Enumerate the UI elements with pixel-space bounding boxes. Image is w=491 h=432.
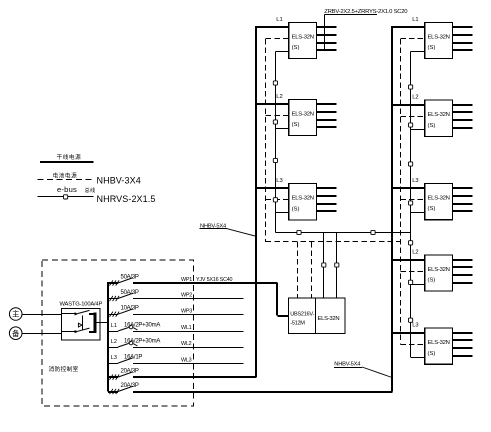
svg-text:L2: L2 <box>412 95 418 101</box>
svg-text:ELS-32N: ELS-32N <box>318 316 340 322</box>
svg-text:NHBV-5X4: NHBV-5X4 <box>334 362 360 368</box>
svg-text:(S): (S) <box>428 278 436 284</box>
svg-text:(S): (S) <box>292 122 300 128</box>
svg-text:20A/3P: 20A/3P <box>121 368 139 374</box>
svg-text:NHRVS-2X1.5: NHRVS-2X1.5 <box>97 194 156 204</box>
svg-text:WL1: WL1 <box>181 325 192 331</box>
svg-text:消防控制室: 消防控制室 <box>49 365 79 373</box>
svg-text:ELS-32N: ELS-32N <box>428 112 450 118</box>
svg-text:WP3: WP3 <box>181 308 192 314</box>
svg-text:NHBV-3X4: NHBV-3X4 <box>97 176 141 186</box>
svg-text:16A/2P+30mA: 16A/2P+30mA <box>124 322 160 328</box>
svg-text:ELS-32N: ELS-32N <box>292 112 314 118</box>
svg-text:(S): (S) <box>428 45 436 51</box>
svg-text:WL2: WL2 <box>181 341 192 347</box>
svg-text:WASTG-100A/4P: WASTG-100A/4P <box>60 302 103 308</box>
svg-text:L1: L1 <box>276 17 282 23</box>
svg-text:备: 备 <box>12 329 20 338</box>
svg-text:WL3: WL3 <box>181 357 192 363</box>
svg-text:16A/1P: 16A/1P <box>124 354 142 360</box>
svg-text:ELS-32N: ELS-32N <box>428 267 450 273</box>
svg-text:ELS-32N: ELS-32N <box>428 196 450 202</box>
svg-text:L2: L2 <box>276 94 282 100</box>
svg-text:(S): (S) <box>428 351 436 357</box>
svg-text:干线电源: 干线电源 <box>57 153 82 161</box>
svg-text:ELS-32N: ELS-32N <box>428 35 450 41</box>
svg-text:-512M: -512M <box>290 321 305 327</box>
svg-text:(S): (S) <box>428 206 436 212</box>
svg-text:ELS-32N: ELS-32N <box>292 196 314 202</box>
svg-text:(S): (S) <box>292 45 300 51</box>
svg-text:YJV 5X16 SC40: YJV 5X16 SC40 <box>196 277 233 283</box>
svg-text:L2: L2 <box>111 339 117 345</box>
svg-text:WP2: WP2 <box>181 293 192 299</box>
svg-text:20A/3P: 20A/3P <box>121 383 139 389</box>
svg-text:50A/3P: 50A/3P <box>121 290 139 296</box>
svg-text:UBS216V-: UBS216V- <box>290 312 314 318</box>
svg-text:e-bus: e-bus <box>57 185 77 194</box>
svg-text:L1: L1 <box>111 323 117 329</box>
svg-text:ELS-32N: ELS-32N <box>428 340 450 346</box>
svg-text:(S): (S) <box>428 123 436 129</box>
svg-text:WP1: WP1 <box>181 277 192 283</box>
svg-text:L1: L1 <box>412 17 418 23</box>
svg-text:16A/2P+30mA: 16A/2P+30mA <box>124 338 160 344</box>
svg-text:(S): (S) <box>292 206 300 212</box>
svg-text:ELS-32N: ELS-32N <box>292 35 314 41</box>
svg-text:50A/3P: 50A/3P <box>121 274 139 280</box>
svg-text:L3: L3 <box>412 323 418 329</box>
svg-text:L2: L2 <box>412 249 418 255</box>
svg-text:主: 主 <box>12 310 19 319</box>
svg-text:10A/3P: 10A/3P <box>121 306 139 312</box>
svg-text:L3: L3 <box>412 178 418 184</box>
svg-text:电池电源: 电池电源 <box>53 171 78 179</box>
svg-text:L3: L3 <box>276 178 282 184</box>
svg-text:L3: L3 <box>111 355 117 361</box>
svg-text:总线: 总线 <box>85 186 96 194</box>
